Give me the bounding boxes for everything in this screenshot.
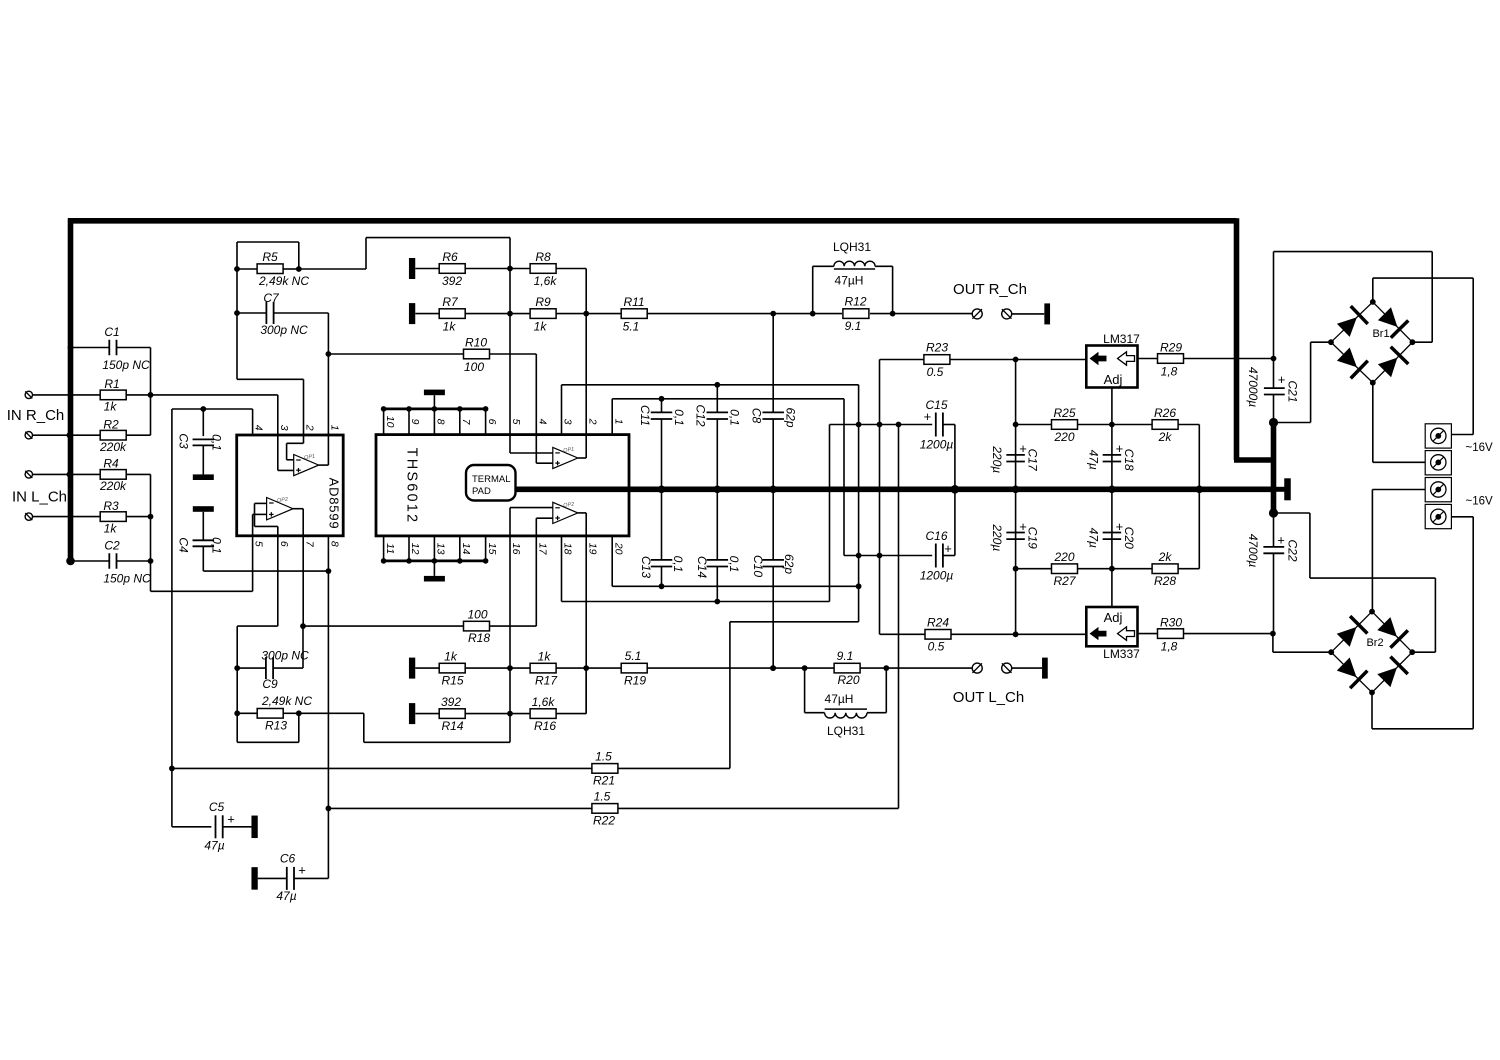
svg-text:1: 1 (328, 425, 340, 431)
svg-text:Br2: Br2 (1366, 637, 1383, 649)
wire C16 right (943, 555, 955, 557)
wire R22 row right (618, 807, 899, 809)
junction C16 row b (877, 553, 883, 559)
wire C16 to bus (954, 489, 956, 555)
wire R20 right (860, 667, 886, 669)
svg-text:300p NC: 300p NC (260, 323, 308, 337)
wire C12 C14 top (716, 385, 718, 413)
ground R7 (409, 303, 415, 324)
right ground bus vertical wire (1234, 218, 1240, 460)
wire R8 right (556, 268, 586, 270)
terminal IN L_Ch signal (25, 513, 32, 520)
wire inductor left down (812, 266, 814, 313)
wire OUT R gnd (1012, 313, 1045, 315)
pin 1 THS wire up (611, 399, 613, 435)
wire C9 right (273, 667, 303, 669)
svg-text:100: 100 (464, 360, 484, 374)
svg-text:14: 14 (460, 543, 472, 555)
ground THS top (424, 390, 445, 396)
junction R25 left (1013, 422, 1019, 428)
pin 6 THS6012 (485, 409, 487, 435)
wire down to R6 node (509, 238, 511, 269)
svg-text:220µ: 220µ (990, 523, 1004, 551)
wire R22 row left (328, 807, 592, 809)
wire C21 top riser (1273, 252, 1275, 359)
resistor R13 (257, 709, 283, 719)
svg-text:6: 6 (486, 419, 498, 425)
wire R2 up to R1 node (150, 395, 152, 435)
wire OP1 output (578, 457, 586, 459)
wire C21 upper (1273, 359, 1275, 389)
wire R2 right (126, 434, 150, 436)
wire minus rail vertical (171, 409, 173, 827)
svg-text:9: 9 (409, 419, 421, 425)
svg-text:1k: 1k (534, 319, 548, 333)
svg-text:R7: R7 (442, 295, 459, 309)
wire C15 to bus (954, 425, 956, 490)
wire LM337 to R30 (1138, 633, 1158, 635)
wire down to C16 row (843, 399, 845, 556)
svg-text:220µ: 220µ (990, 445, 1004, 473)
AC terminal block 2 (1425, 451, 1451, 475)
wire R19 to R20 (647, 667, 805, 669)
wire Br2 bottom riser (1371, 693, 1373, 729)
wire R13 right (283, 712, 299, 714)
svg-text:OUT L_Ch: OUT L_Ch (953, 689, 1024, 706)
pin 3 THS wire up (561, 385, 563, 435)
wire C12 C14 bottom (716, 567, 718, 602)
svg-text:47µH: 47µH (825, 692, 854, 706)
svg-text:220: 220 (1053, 430, 1074, 444)
wire R23 to LM317 (950, 359, 1086, 361)
ground THS bottom (424, 576, 445, 582)
junction C10 R19 line (770, 665, 776, 671)
capacitor C14 (707, 559, 729, 561)
wire to terminal 2 (1373, 461, 1425, 463)
svg-text:R13: R13 (265, 718, 287, 732)
wire AC right down 2 (1472, 517, 1474, 729)
wire to R6 node (366, 237, 510, 239)
svg-text:2k: 2k (1158, 430, 1173, 444)
svg-text:PAD: PAD (472, 486, 491, 497)
wire R18 right (490, 625, 537, 627)
wire gnd to R6 (415, 268, 439, 270)
wire THS OP1 minus input (510, 452, 553, 454)
wire OP2 minus input (510, 507, 553, 509)
wire to C5 (172, 826, 212, 828)
wire C6 right (294, 877, 328, 879)
wire R5 loop top (237, 241, 299, 243)
svg-text:C10: C10 (751, 555, 765, 577)
junction R29 C21 (1271, 356, 1277, 362)
svg-text:+: + (298, 863, 306, 878)
svg-text:R6: R6 (442, 250, 458, 264)
svg-text:1200µ: 1200µ (920, 438, 954, 452)
wire to R11 (586, 313, 621, 315)
junction Br2 top (1369, 609, 1375, 615)
svg-text:LQH31: LQH31 (827, 724, 865, 738)
wire R11 to R12 (647, 313, 813, 315)
junction C21 ground (1269, 418, 1278, 427)
svg-text:C7: C7 (263, 291, 280, 305)
wire OP2 plus input (536, 517, 553, 519)
junction Br1 right (1410, 339, 1416, 345)
svg-text:220: 220 (1053, 550, 1074, 564)
svg-text:C11: C11 (638, 405, 652, 426)
capacitor C18 (1103, 454, 1122, 456)
svg-text:LM337: LM337 (1103, 647, 1140, 661)
ground OUT L_Ch (1042, 658, 1048, 679)
arrow white LM337 (1118, 627, 1135, 640)
svg-text:C9: C9 (262, 677, 278, 691)
svg-text:IN R_Ch: IN R_Ch (7, 407, 65, 424)
wire R21 row left (172, 767, 592, 769)
wire pin2 jog a (287, 442, 304, 444)
wire to R17 (510, 667, 530, 669)
svg-text:C14: C14 (695, 556, 709, 578)
wire OP2 output (578, 512, 586, 514)
wire C8 C10 top (772, 314, 774, 413)
terminal OUT L_Ch ground (1002, 663, 1012, 673)
junction R17 R19 (583, 665, 589, 671)
wire to Br2 right vertex (1412, 651, 1435, 653)
svg-text:150p NC: 150p NC (102, 358, 150, 372)
resistor R2 (100, 430, 126, 440)
junction pin 11 bus (381, 558, 387, 564)
wire to R10 (328, 353, 463, 355)
wire R26 to R28 (1198, 425, 1200, 569)
wire jog up (365, 238, 367, 269)
wire R24 to LM337 (951, 633, 1087, 635)
wire bus to C14 (716, 489, 718, 560)
wire AD pin2 down (303, 379, 305, 435)
wire C1 right (117, 347, 151, 349)
wire Br1 right loop down (1431, 252, 1433, 343)
wire riser to R14 node (509, 714, 511, 743)
wire C7 left (237, 312, 266, 314)
capacitor C15 (935, 413, 937, 437)
svg-text:47µ: 47µ (1086, 450, 1100, 470)
resistor R7 (439, 309, 465, 319)
wire inductor L right lead (867, 712, 886, 714)
svg-text:5: 5 (253, 541, 265, 547)
wire AD pin1 vertical (327, 354, 329, 465)
ground R14 (409, 703, 415, 724)
svg-text:R16: R16 (534, 719, 556, 733)
wire Br1 AC top (1373, 277, 1473, 279)
wire bus to C2 (71, 560, 110, 562)
wire inductor right down (892, 266, 894, 313)
svg-text:1.5: 1.5 (595, 750, 612, 764)
junction R27 left (1013, 566, 1019, 572)
resistor R24 (925, 630, 951, 640)
junction bus C12 C14 (714, 486, 722, 494)
svg-text:+: + (1019, 441, 1027, 456)
wire R17 right (556, 667, 586, 669)
svg-text:18: 18 (562, 543, 574, 555)
resistor R12 (843, 309, 869, 319)
wire pin6 inside (277, 526, 279, 535)
ground OUT R_Ch (1044, 303, 1050, 324)
wire inductor left lead (813, 265, 834, 267)
svg-text:Br1: Br1 (1372, 328, 1389, 340)
wire R5 left (237, 268, 257, 270)
junction Br1 top (1370, 299, 1376, 305)
mid ground bus wire (515, 486, 1274, 492)
wire C6 up to R22 (327, 808, 329, 878)
junction C22 ground (1269, 508, 1278, 517)
svg-text:+: + (227, 812, 235, 827)
svg-text:R20: R20 (837, 673, 859, 687)
svg-text:C2: C2 (104, 539, 120, 553)
diode Br1 bottom-right (1378, 358, 1398, 378)
svg-text:LQH31: LQH31 (833, 240, 871, 254)
svg-text:2,49k NC: 2,49k NC (258, 274, 309, 288)
wire R21 row right (618, 767, 730, 769)
svg-text:1k: 1k (104, 521, 118, 535)
capacitor C19 (1006, 532, 1025, 534)
svg-text:5.1: 5.1 (623, 319, 640, 333)
svg-text:R10: R10 (465, 335, 487, 349)
junction bus PSU left (1012, 486, 1020, 494)
svg-text:C22: C22 (1286, 539, 1300, 561)
svg-text:C6: C6 (280, 851, 296, 865)
IC THS6012 box (376, 435, 629, 536)
wire inductor right lead (875, 265, 893, 267)
junction C13 bottom (659, 583, 665, 589)
wire to R9 (510, 313, 530, 315)
junction bus C2 (66, 557, 75, 566)
wire to R8 (510, 268, 530, 270)
wire OUT L gnd (1012, 667, 1042, 669)
junction C9 left (234, 665, 240, 671)
resistor R6 (439, 264, 465, 274)
pin 7 THS6012 (459, 409, 461, 435)
svg-text:2: 2 (586, 418, 598, 425)
junction C15 row a (856, 422, 862, 428)
svg-text:R9: R9 (535, 295, 551, 309)
wire L gnd terminal to R4 (33, 473, 101, 475)
wire pin6 jog b (254, 503, 256, 526)
junction bus R2 (67, 432, 73, 438)
wire to R24 (880, 633, 926, 635)
svg-text:1,8: 1,8 (1161, 639, 1178, 653)
resistor R23 (924, 355, 950, 365)
junction R22 C6 pin8 (326, 806, 332, 812)
svg-text:10: 10 (384, 416, 396, 428)
resistor R14 (439, 709, 465, 719)
junction R13 right (296, 710, 302, 716)
wire C9 R13 left vertical (236, 626, 238, 742)
svg-text:R25: R25 (1053, 406, 1075, 420)
svg-text:R12: R12 (844, 294, 866, 308)
svg-text:4: 4 (253, 425, 265, 431)
wire R12 right (870, 313, 893, 315)
arrow black LM317 (1090, 352, 1107, 365)
bridge Br2 frame (1331, 612, 1412, 693)
junction pin 8 bus (432, 406, 438, 412)
wire R21 link (730, 621, 859, 623)
svg-text:AD8599: AD8599 (327, 478, 342, 530)
wire PSU left column (1015, 360, 1017, 635)
wire THS supply bus bottom (384, 560, 486, 563)
svg-text:R28: R28 (1154, 574, 1176, 588)
wire to Br1 left loop (1274, 422, 1311, 424)
op-amp AD OP1 (294, 455, 319, 476)
resistor R18 (464, 621, 490, 631)
svg-text:1200µ: 1200µ (920, 568, 954, 582)
wire bus to C13 (661, 489, 663, 560)
svg-text:+: + (1116, 441, 1124, 456)
capacitor C4 (193, 539, 215, 541)
svg-text:~16V: ~16V (1466, 442, 1494, 454)
wire R28 right (1178, 568, 1200, 570)
junction R21 rail (169, 766, 175, 772)
capacitor C10 (762, 559, 784, 561)
wire jog to AD pin2 (237, 378, 304, 380)
wire C4 bottom (202, 546, 204, 571)
wire AD OP2 out (293, 508, 303, 510)
svg-text:R30: R30 (1160, 615, 1182, 629)
resistor R10 (464, 349, 490, 359)
svg-text:C15: C15 (925, 398, 947, 412)
capacitor C21 (1264, 387, 1285, 389)
wire bus to ground bar bottom (433, 561, 435, 576)
svg-text:0,1: 0,1 (210, 537, 224, 554)
wire C15 row (830, 424, 933, 426)
wire pin7 AD to R18 (303, 625, 464, 627)
svg-text:+: + (1019, 519, 1027, 534)
junction bus C15 C16 (951, 485, 960, 494)
wire R input to R1 (33, 394, 101, 396)
capacitor C5 (215, 815, 217, 838)
wire R4/R3 node vertical (150, 474, 152, 591)
svg-text:392: 392 (442, 274, 462, 288)
wire LM317 adj to LM337 (1111, 388, 1113, 608)
junction pin 7 bus (457, 406, 463, 412)
AC terminal block 1 (1425, 424, 1451, 448)
svg-text:11: 11 (384, 543, 396, 554)
wire Br2 right loop riser (1309, 513, 1311, 578)
svg-text:C18: C18 (1122, 449, 1136, 471)
junction Br2 left (1328, 649, 1334, 655)
wire pin16 vertical to R15 node (509, 508, 511, 714)
wire C7 right (274, 312, 329, 314)
wire to R16 (510, 713, 530, 715)
resistor R28 (1152, 564, 1178, 574)
resistor R3 (100, 512, 126, 522)
wire bus to C10 (772, 489, 774, 560)
wire R16 up to R17 node (585, 668, 587, 714)
terminal OUT L_Ch signal (972, 663, 982, 673)
wire to R14 node (364, 741, 510, 743)
wire R5 right (283, 268, 299, 270)
ground R6 (409, 258, 415, 279)
wire pin6 jog a (255, 525, 278, 527)
resistor R25 (1052, 420, 1078, 430)
wire C13 node down (858, 586, 860, 622)
wire pin1 to C11 to right (612, 398, 844, 400)
svg-text:3: 3 (278, 425, 290, 431)
wire gnd to R15 (415, 667, 439, 669)
AC terminal block 4 (1425, 504, 1451, 528)
svg-text:47µ: 47µ (276, 889, 296, 903)
ground bar main (1284, 478, 1291, 500)
svg-text:C1: C1 (104, 325, 119, 339)
svg-text:4700µ: 4700µ (1246, 534, 1260, 568)
junction pin 15 bus (483, 558, 489, 564)
wire AD pin5 down (252, 536, 254, 592)
svg-text:0,1: 0,1 (210, 434, 224, 451)
terminal IN R_Ch signal (25, 391, 32, 398)
junction R3 R4 (148, 514, 154, 520)
svg-text:R2: R2 (103, 418, 119, 432)
svg-text:R3: R3 (103, 499, 119, 513)
svg-text:47µ: 47µ (1086, 528, 1100, 548)
wire pin3 inside (277, 435, 279, 470)
svg-text:Adj: Adj (1104, 372, 1123, 387)
svg-text:47µ: 47µ (204, 838, 224, 852)
wire pin2 jog b (286, 443, 288, 460)
svg-text:150p NC: 150p NC (103, 571, 151, 585)
wire to Br1 left vertex (1311, 341, 1331, 343)
wire AC right down (1472, 278, 1474, 434)
svg-text:R8: R8 (535, 250, 551, 264)
ground R15 (409, 658, 415, 679)
pin 10 THS6012 (383, 409, 385, 435)
junction C7 R10 pin1 (326, 351, 332, 357)
svg-text:9.1: 9.1 (837, 649, 854, 663)
svg-text:C8: C8 (750, 408, 764, 424)
svg-text:0.5: 0.5 (928, 640, 945, 654)
bridge Br1 frame (1331, 302, 1412, 383)
junction C15 row b (877, 422, 883, 428)
junction Br2 bottom (1369, 690, 1375, 696)
wire to R19 (586, 667, 621, 669)
wire Br2 top riser (1371, 490, 1373, 612)
junction Br2 right (1409, 649, 1415, 655)
svg-text:9.1: 9.1 (845, 319, 862, 333)
wire pin3 to C12 to right (562, 384, 859, 386)
junction R12 inductor right (890, 311, 896, 317)
junction C11 top (659, 396, 665, 402)
wire R6 node to THS pin5 (509, 269, 511, 454)
resistor R8 (530, 264, 556, 274)
AC terminal block 3 (1425, 478, 1451, 502)
svg-text:R26: R26 (1154, 406, 1176, 420)
svg-text:C19: C19 (1026, 527, 1040, 549)
diode Br1 top-left (1337, 317, 1357, 337)
wire to terminal 4 (1452, 516, 1474, 518)
pin 14 THS6012 (459, 536, 461, 561)
svg-text:Adj: Adj (1104, 610, 1123, 625)
wire to OUT L terminal (886, 667, 972, 669)
capacitor C22 (1263, 546, 1284, 548)
junction C2 node (148, 558, 154, 564)
junction bus C11 C13 (658, 486, 666, 494)
wire C21 lower (1273, 395, 1275, 423)
op-amp AD OP2 (267, 498, 293, 520)
wire C4 to pin8 net (203, 570, 328, 572)
wire THS supply bus top (384, 407, 486, 410)
junction pin 13 bus (432, 558, 438, 564)
svg-text:47µH: 47µH (835, 274, 864, 288)
wire Br2 right loop down (1434, 578, 1436, 652)
svg-text:15: 15 (486, 543, 498, 555)
diode Br2 bottom-right (1377, 668, 1397, 688)
wire C15 right (943, 424, 955, 426)
wire R15 right (465, 667, 510, 669)
